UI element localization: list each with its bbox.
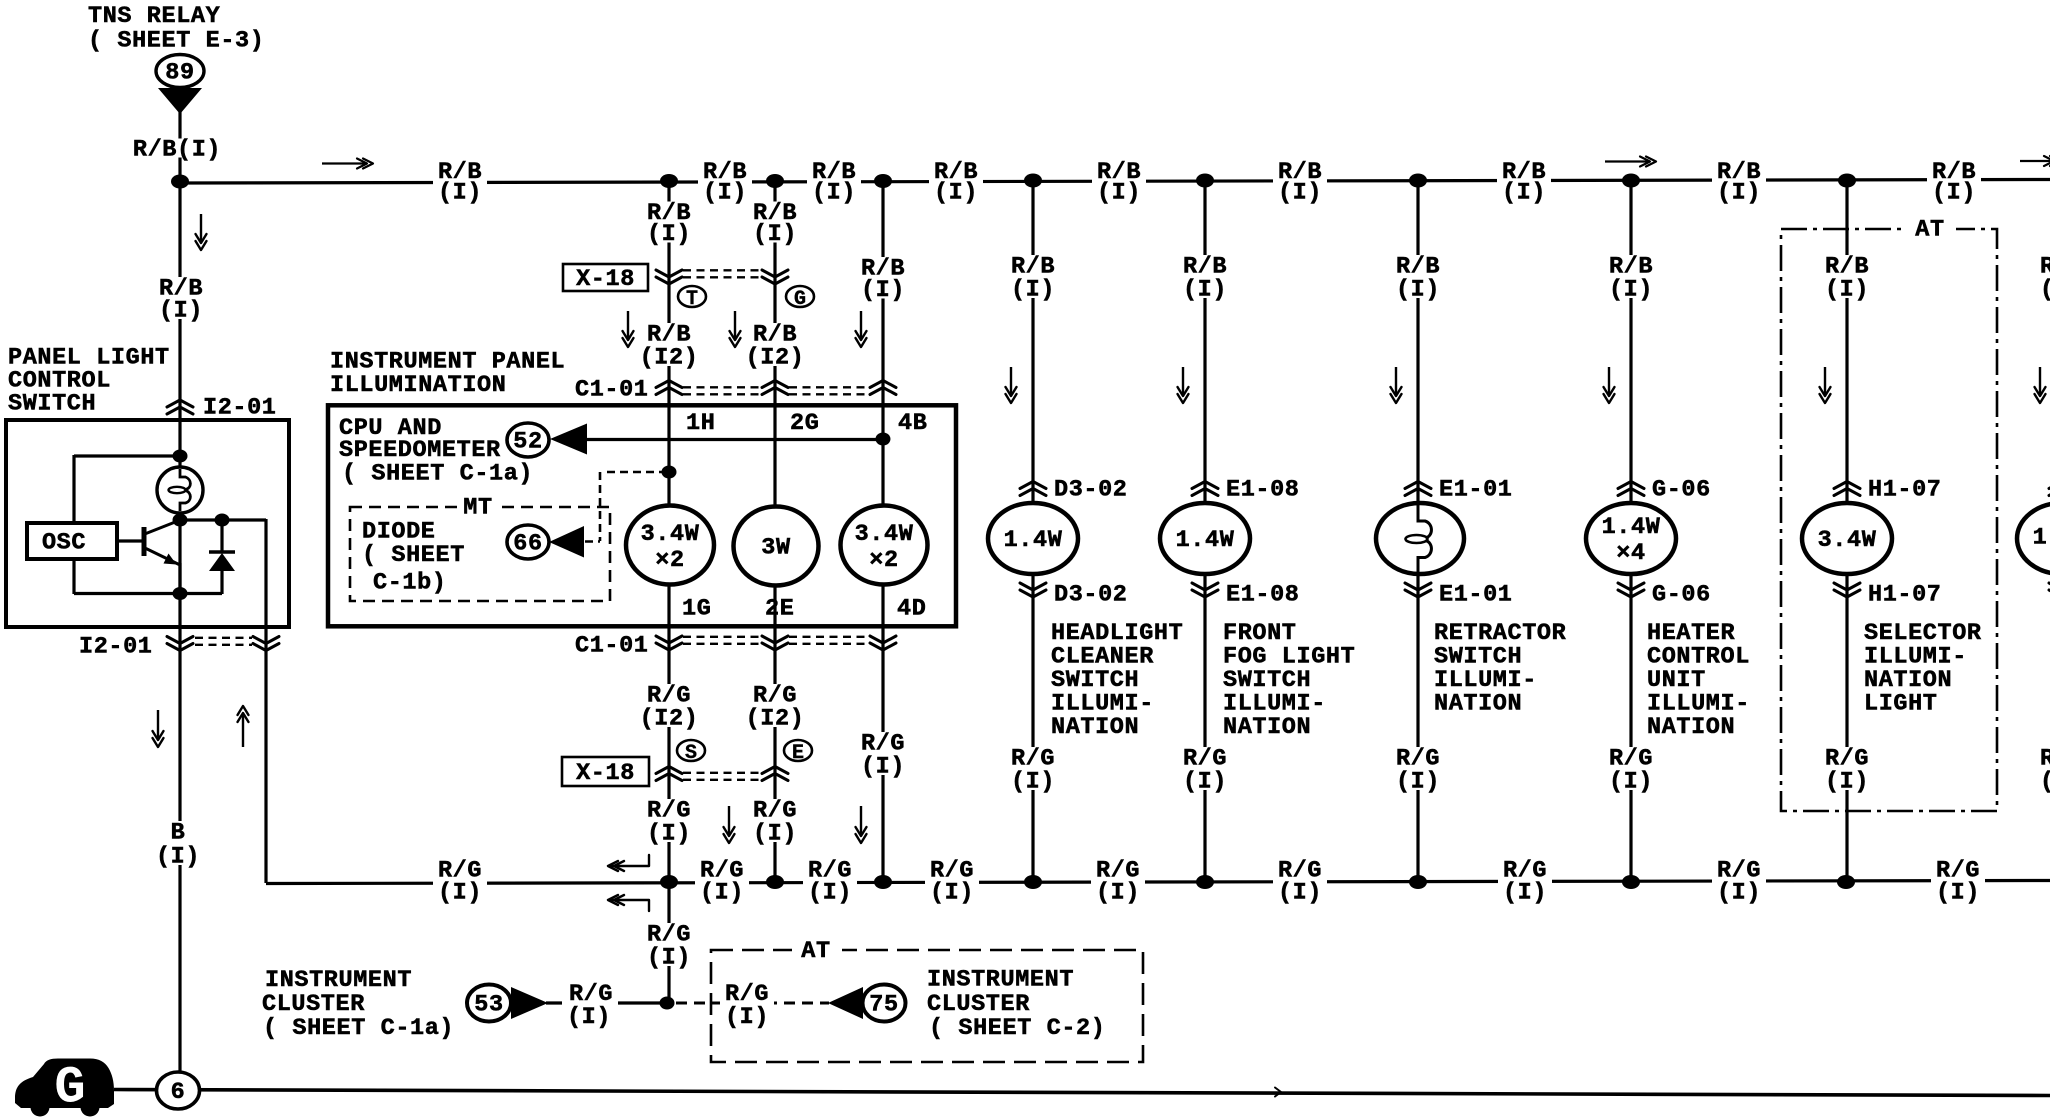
svg-text:(I): (I) [1503, 879, 1547, 906]
svg-text:6: 6 [171, 1079, 186, 1106]
svg-text:(I): (I) [700, 879, 744, 906]
junction dot (669,472) [662, 466, 677, 479]
connector H1-07 top chevrons [1834, 482, 1860, 489]
connector C1-01 top chevrons w1 [656, 381, 682, 388]
svg-text:(I): (I) [1096, 879, 1140, 906]
svg-text:(I): (I) [647, 221, 691, 248]
label R/G (I2) below C1-01 x=669 [638, 684, 700, 727]
junction dot R/G bus x=1418 [1409, 875, 1427, 889]
pin E circled [784, 740, 812, 761]
svg-text:S: S [685, 742, 697, 765]
svg-text:3.4W: 3.4W [1818, 527, 1877, 554]
connector G-06 top chevrons [1618, 482, 1644, 489]
connector X-18 top chevrons w1 [656, 270, 682, 277]
pin G circled [786, 286, 814, 307]
svg-text:E1-08: E1-08 [1226, 581, 1300, 608]
connector X-18 bottom chevrons w1 [656, 767, 682, 774]
svg-text:(I): (I) [753, 820, 797, 847]
label C1-01 bottom [573, 634, 651, 654]
junction dot R/G bus x=1205 [1196, 875, 1214, 889]
connector X-18 bottom link dashes [683, 772, 761, 774]
label R/B (I) on wire x=1847 [1823, 255, 1870, 298]
label R/B (I) on top bus at x=1300 [1273, 161, 1327, 201]
svg-text:G: G [794, 288, 806, 311]
arrow down beside panel switch feed [200, 214, 202, 243]
svg-text:(I): (I) [1717, 179, 1761, 206]
label R/B (I) on top bus at x=834 [807, 161, 861, 201]
junction dot (667,1003) [660, 997, 675, 1010]
label R/B (I) on top bus at x=460 [433, 161, 487, 201]
svg-text:(I): (I) [156, 843, 200, 870]
svg-text:1H: 1H [686, 410, 715, 437]
wire w3 column (x=883) [881, 181, 884, 883]
svg-text:(I): (I) [725, 1004, 769, 1031]
label R/B (I) on wire x=1033 [1009, 255, 1056, 298]
svg-text:( SHEET: ( SHEET [362, 542, 465, 569]
label R/B (I) on wire x=775 [751, 202, 798, 243]
label R/B (I) on top bus at x=1954 [1927, 161, 1981, 201]
label R/B (I) on top bus at x=1739 [1712, 161, 1766, 201]
svg-text:(I): (I) [1502, 179, 1546, 206]
junction dot (883,439) [876, 433, 891, 446]
svg-text:G-06: G-06 [1652, 581, 1711, 608]
label R/G (I) above bus x=1205 [1181, 747, 1228, 790]
junction dot at (180,182) [171, 175, 189, 189]
wire ground bus [114, 1090, 2050, 1096]
svg-text:(I2): (I2) [640, 705, 699, 732]
wire cluster feed horizontal [546, 1001, 667, 1004]
box AT dash-dot (selector illumination) [1781, 229, 1997, 811]
svg-text:C-1b): C-1b) [373, 569, 447, 596]
label R/G (I) above bus x=1033 [1009, 747, 1056, 790]
junction dot R/G bus x=669 [660, 875, 678, 889]
svg-text:(I): (I) [438, 879, 482, 906]
svg-text:NATION: NATION [1647, 714, 1735, 741]
svg-text:CLUSTER: CLUSTER [927, 991, 1030, 1018]
svg-text:LIGHT: LIGHT [1864, 690, 1938, 717]
svg-text:(I): (I) [934, 179, 978, 206]
label R/B (I) on top bus at x=956 [929, 161, 983, 201]
svg-text:×4: ×4 [1616, 540, 1645, 567]
svg-text:AT: AT [1915, 216, 1944, 243]
svg-text:(I): (I) [1396, 768, 1440, 795]
wire front fog column (x=1205) [1203, 181, 1206, 883]
svg-text:X-18: X-18 [576, 266, 635, 293]
svg-text:(I): (I) [2040, 768, 2050, 795]
svg-text:I2-01: I2-01 [79, 633, 153, 660]
wire retractor column (x=1418) [1416, 181, 1419, 883]
label R/G (I2) below C1-01 x=775 [744, 684, 806, 727]
svg-text:1.4W: 1.4W [1176, 527, 1235, 554]
bulb 3.4W x=1847 [1802, 503, 1892, 574]
wire left branch down (upper) [72, 455, 75, 524]
arrow down beside x=1418 [1395, 367, 1397, 396]
svg-text:(I): (I) [1717, 879, 1761, 906]
label R/G inside AT box [720, 981, 774, 1025]
arrow right on top bus at x=2040 [2020, 160, 2050, 162]
svg-text:52: 52 [513, 428, 542, 455]
junction dot top bus x=883 [874, 174, 892, 188]
arrow down beside x=1847 [1824, 367, 1826, 396]
connector top chevrons right edge [2049, 482, 2050, 489]
arrow down beside w3 [860, 311, 862, 340]
svg-text:(I): (I) [647, 944, 691, 971]
svg-text:H1-07: H1-07 [1868, 581, 1942, 608]
bulb 1.4W x=1033 [988, 503, 1078, 574]
label R/B (I) on wire w3 [859, 257, 906, 299]
svg-text:(I): (I) [1183, 276, 1227, 303]
svg-text:TNS RELAY: TNS RELAY [88, 3, 221, 30]
label R/G (I) on w3 lower [859, 732, 906, 775]
svg-text:(I): (I) [1609, 276, 1653, 303]
svg-text:2G: 2G [790, 410, 819, 437]
label B (I) on ground lead [154, 821, 201, 865]
svg-text:H1-07: H1-07 [1868, 476, 1942, 503]
svg-text:2E: 2E [765, 595, 794, 622]
transistor Q collector [146, 521, 179, 534]
svg-text:E1-01: E1-01 [1439, 581, 1513, 608]
junction dot (180,456) [173, 450, 188, 463]
connector circle 75 [863, 985, 906, 1022]
ground symbol G (car body) [15, 1059, 114, 1109]
wire left branch down (lower) [72, 558, 75, 594]
svg-text:3W: 3W [761, 534, 791, 561]
label R/G (I) on bottom bus x=1118 [1091, 860, 1145, 902]
label R/B (I) on wire x=1205 [1181, 255, 1228, 298]
label R/B (I2) on wire x=775 [744, 323, 806, 366]
pin S circled [677, 740, 705, 761]
label R/G (I) on bottom bus x=1958 [1931, 860, 1985, 902]
label R/G (I) on bottom bus x=830 [803, 860, 857, 902]
svg-text:C1-01: C1-01 [575, 632, 649, 659]
arrow down beside w2 [734, 311, 736, 340]
svg-text:×2: ×2 [655, 547, 684, 574]
transistor Q emitter [146, 549, 179, 565]
box X-18 label (bottom) [562, 757, 649, 786]
svg-text:( SHEET C-1a): ( SHEET C-1a) [263, 1015, 454, 1042]
label MT [458, 497, 500, 517]
svg-text:(I): (I) [1183, 768, 1227, 795]
connector I2-01 top chevrons [167, 400, 193, 407]
svg-text:(I): (I) [1011, 768, 1055, 795]
bulb 3W (center) [734, 507, 819, 586]
connector H1-07 bottom chevrons [1834, 583, 1860, 590]
box MT dashed [350, 507, 610, 601]
connector circle 52 [507, 423, 549, 457]
junction dot R/G bus x=1631 [1622, 875, 1640, 889]
transistor Q base bar [142, 527, 147, 556]
junction dot top bus x=1847 [1838, 174, 1856, 188]
bulb panel illumination control lamp [157, 467, 203, 513]
connector G-06 bottom chevrons [1618, 583, 1644, 590]
bulb 1.4W x=1205 [1160, 503, 1250, 574]
svg-text:75: 75 [869, 991, 898, 1018]
svg-text:(I): (I) [2040, 276, 2050, 303]
connector D3-02 top chevrons [1020, 482, 1046, 489]
arrow down beside w1 [627, 311, 629, 340]
connector C1-01 top link dashes [683, 386, 761, 388]
label R/G below bus on w1 [645, 923, 692, 966]
connector C1-01 top chevrons w3 [870, 381, 896, 388]
junction dot top bus x=1631 [1622, 174, 1640, 188]
label R/G (I) above bus x=1847 [1823, 747, 1870, 790]
svg-text:(I): (I) [861, 277, 905, 304]
connector C1-01 bottom link dashes [683, 636, 761, 638]
junction dot top bus x=1418 [1409, 174, 1427, 188]
wire OSC output to base [117, 539, 143, 542]
svg-text:(I): (I) [930, 879, 974, 906]
bulb cut at right edge [2017, 503, 2050, 574]
arrow down beside w3 lower [860, 806, 862, 836]
arrow down beside x=1631 [1608, 367, 1610, 396]
svg-text:(I): (I) [1609, 768, 1653, 795]
junction dot top bus x=1033 [1024, 174, 1042, 188]
junction dot (180,520) [173, 514, 188, 527]
svg-text:(I): (I) [438, 179, 482, 206]
connector E1-01 bottom chevrons [1405, 583, 1431, 590]
svg-text:T: T [686, 288, 698, 311]
svg-text:INSTRUMENT: INSTRUMENT [265, 967, 412, 994]
wire bottom R/G bus [266, 881, 2050, 884]
label R/B (I2) on wire x=669 [638, 323, 700, 366]
svg-text:NATION: NATION [1051, 714, 1139, 741]
box OSC oscillator [27, 523, 117, 559]
arrow down beside w2 lower [728, 806, 730, 836]
svg-text:I2-01: I2-01 [203, 394, 277, 421]
wire diode branch down (x=266) [264, 519, 267, 883]
svg-text:(I2): (I2) [640, 344, 699, 371]
label R/B(I) at relay output [132, 139, 223, 158]
label AT on cluster box [792, 940, 842, 960]
svg-text:D3-02: D3-02 [1054, 581, 1128, 608]
svg-text:R/B(I): R/B(I) [133, 136, 221, 163]
svg-text:(I): (I) [647, 820, 691, 847]
svg-text:INSTRUMENT: INSTRUMENT [927, 966, 1074, 993]
box X-18 label (top) [563, 264, 648, 291]
arrow right on top bus at x=1630 [1605, 160, 1649, 162]
junction dot top bus x=669 [660, 174, 678, 188]
svg-text:( SHEET C-2): ( SHEET C-2) [929, 1015, 1105, 1042]
box instrument panel illumination [328, 405, 956, 626]
diode D body [209, 553, 235, 571]
label R/B (I) on wire x=1418 [1394, 255, 1441, 298]
svg-text:NATION: NATION [1223, 714, 1311, 741]
svg-text:E: E [792, 742, 804, 765]
connector E1-08 bottom chevrons [1192, 583, 1218, 590]
svg-text:(I2): (I2) [746, 705, 805, 732]
svg-text:(I): (I) [1825, 276, 1869, 303]
wire top R/B bus [180, 180, 2050, 184]
junction dot R/G bus x=1847 [1837, 875, 1855, 889]
svg-text:(I): (I) [753, 221, 797, 248]
svg-text:(I): (I) [808, 879, 852, 906]
svg-text:C1-01: C1-01 [575, 376, 649, 403]
connector C1-01 bottom chevrons w3 [870, 636, 896, 643]
arrow continuation upper-left of R/G junction [609, 855, 649, 866]
arrow down below switch [157, 710, 159, 740]
arrow from 53 (filled) [511, 987, 548, 1019]
wire w1 column (x=669) [667, 181, 670, 1003]
junction dot (180,593) [173, 587, 188, 600]
box panel light control switch [6, 420, 289, 627]
svg-text:OSC: OSC [42, 529, 86, 556]
svg-text:G: G [54, 1059, 85, 1118]
svg-text:( SHEET C-1a): ( SHEET C-1a) [342, 460, 533, 487]
svg-text:53: 53 [474, 991, 503, 1018]
junction dot top bus x=775 [766, 174, 784, 188]
label AT on right box [1906, 218, 1956, 238]
svg-text:66: 66 [513, 530, 542, 557]
svg-text:(I): (I) [159, 297, 203, 324]
wire dashed to AT cluster [676, 1002, 829, 1005]
connector X-18 top link dashes [683, 269, 761, 271]
svg-text:E1-08: E1-08 [1226, 476, 1300, 503]
connector C1-01 top chevrons w2 [762, 381, 788, 388]
connector I2-01 link dashes [195, 637, 252, 639]
arrow down at right edge [2039, 367, 2041, 396]
svg-text:1G: 1G [682, 595, 711, 622]
arrow down beside x=1205 [1182, 367, 1184, 396]
svg-text:CLUSTER: CLUSTER [262, 991, 365, 1018]
svg-text:(I): (I) [1097, 179, 1141, 206]
svg-text:3.4W: 3.4W [641, 521, 700, 548]
svg-text:(I): (I) [1932, 179, 1976, 206]
svg-text:B: B [171, 819, 186, 846]
svg-text:(I): (I) [1011, 276, 1055, 303]
connector E1-08 top chevrons [1192, 482, 1218, 489]
svg-text:(I): (I) [812, 179, 856, 206]
label R/G (I) on bottom bus x=1739 [1712, 860, 1766, 902]
wire dashed MT tap vertical [599, 472, 602, 541]
label R/G (I) above bus x=1418 [1394, 747, 1441, 790]
svg-text:(I): (I) [703, 179, 747, 206]
svg-text:(I): (I) [861, 753, 905, 780]
svg-text:1.4W: 1.4W [1602, 514, 1661, 541]
label R/B (I) on top bus at x=1524 [1497, 161, 1551, 201]
svg-text:1.4W: 1.4W [1004, 527, 1063, 554]
label R/G (I) above bus x=775 [751, 799, 798, 842]
svg-text:ILLUMINATION: ILLUMINATION [330, 372, 506, 399]
svg-text:(I2): (I2) [746, 344, 805, 371]
svg-text:4B: 4B [898, 410, 927, 437]
svg-text:AT: AT [801, 938, 830, 965]
arrow from 89 (filled triangle) [158, 88, 202, 114]
bulb 3.4Wx2 right [841, 506, 928, 585]
label R/G (I) on bottom bus x=952 [925, 860, 979, 902]
svg-text:(I): (I) [1396, 276, 1440, 303]
svg-text:NATION: NATION [1434, 690, 1522, 717]
svg-text:×2: ×2 [869, 547, 898, 574]
connector circle 53 [467, 985, 511, 1022]
wire w2 column (x=775) [773, 181, 776, 883]
wire switch top-left branch [74, 454, 180, 457]
wire 52 feed line [585, 438, 883, 441]
wire headlight cleaner column (x=1033) [1031, 181, 1034, 883]
connector D3-02 bottom chevrons [1020, 583, 1046, 590]
label R/B (I) on top bus at x=1119 [1092, 161, 1146, 201]
connector E1-01 top chevrons [1405, 482, 1431, 489]
label R/G (I) above bus x=669 [645, 799, 692, 842]
label C1-01 top [574, 378, 650, 398]
bulb 1.4W×4 x=1631 [1586, 503, 1676, 574]
bulb 3.4Wx2 left (meters) [626, 506, 714, 585]
wire diode anode lead [220, 520, 223, 552]
connector circle 89 [156, 55, 204, 88]
label R/G cut at right edge [2038, 747, 2050, 790]
label R/B (I) on panel feed [157, 277, 204, 319]
arrow to 52 (filled) [550, 424, 587, 455]
arrow up beside return wire [242, 713, 244, 747]
arrow right on top bus at x=345 [322, 162, 366, 164]
label R/B (I) on top bus at x=725 [698, 161, 752, 201]
connector circle 66 [507, 525, 549, 559]
box AT dashed (instrument cluster C-2) [711, 950, 1143, 1062]
svg-text:(I): (I) [567, 1004, 611, 1031]
connector X-18 bottom chevrons w2 [762, 767, 788, 774]
diode D cathode bar [209, 550, 235, 554]
label R/G (I) on bottom bus x=460 [433, 860, 487, 902]
label R/B cut at right edge [2038, 255, 2050, 298]
junction dot top bus x=1205 [1196, 174, 1214, 188]
label R/B (I) on wire x=1631 [1607, 255, 1654, 298]
label R/G (I) above bus x=1631 [1607, 747, 1654, 790]
wire bottom rail [74, 592, 222, 595]
junction dot R/G bus x=883 [874, 875, 892, 889]
connector circle 6 [157, 1072, 200, 1109]
svg-text:89: 89 [165, 59, 194, 86]
svg-text:4D: 4D [897, 595, 926, 622]
svg-text:(I): (I) [1936, 879, 1980, 906]
connector C1-01 bottom chevrons w2 [762, 636, 788, 643]
wire selector column (x=1847) [1845, 181, 1848, 883]
arrow to 75 (filled) [828, 987, 863, 1019]
junction dot (222,520) [215, 514, 230, 527]
wire collector rail to diode branch [180, 518, 266, 521]
connector C1-01 bottom chevrons w1 [656, 636, 682, 643]
connector X-18 top chevrons w2 [762, 270, 788, 277]
svg-text:(I): (I) [1825, 768, 1869, 795]
bulb retractor switch illumination [1376, 503, 1464, 574]
svg-text:( SHEET E-3): ( SHEET E-3) [88, 27, 264, 54]
arrow continuation lower-left of R/G junction [609, 900, 649, 911]
label R/G (I) on bottom bus x=1300 [1273, 860, 1327, 902]
connector bottom chevrons right edge [2049, 583, 2050, 590]
wire dashed to 66 arrow [585, 540, 600, 543]
junction dot R/G bus x=1033 [1024, 875, 1042, 889]
connector I2-01 bottom chevrons left [167, 637, 193, 644]
svg-text:MT: MT [463, 494, 492, 521]
arrow to 66 (filled) [549, 526, 584, 558]
wire emitter to bottom rail [178, 563, 181, 594]
svg-text:SWITCH: SWITCH [8, 390, 96, 417]
svg-text:E1-01: E1-01 [1439, 476, 1513, 503]
wire dashed MT tap horizontal [607, 471, 662, 474]
svg-text:1.4W: 1.4W [2033, 524, 2050, 551]
svg-text:(I): (I) [1278, 879, 1322, 906]
label R/G (I) on bottom bus x=1525 [1498, 860, 1552, 902]
label R/B (I) on wire x=669 [645, 202, 692, 243]
wire heater column (x=1631) [1629, 181, 1632, 883]
label R/G (I) on bottom bus x=722 [695, 860, 749, 902]
arrow mark on ground bus [1275, 1088, 1281, 1097]
svg-text:D3-02: D3-02 [1054, 476, 1128, 503]
svg-text:X-18: X-18 [576, 760, 635, 787]
connector I2-01 bottom chevrons right [253, 637, 279, 644]
pin T circled [678, 286, 706, 307]
label R/G on cluster feed [562, 981, 618, 1025]
svg-text:(I): (I) [1278, 179, 1322, 206]
svg-text:G-06: G-06 [1652, 476, 1711, 503]
